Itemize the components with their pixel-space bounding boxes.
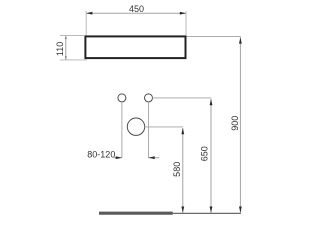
cabinet body rectangle bbox=[85, 36, 185, 58]
svg-text:110: 110 bbox=[55, 42, 65, 56]
dimension 650 dimension line bbox=[210, 99, 212, 213]
wire drop line from left outlet bbox=[121, 102, 123, 158]
floor thin line bbox=[173, 212, 241, 214]
dimension 450 dimension line bbox=[86, 12, 186, 14]
svg-text:450: 450 bbox=[129, 4, 144, 14]
wire drop line from right outlet bbox=[148, 102, 150, 158]
dimension 80-120 left arrow bbox=[116, 156, 122, 159]
dimension 110 bottom extension line bbox=[60, 59, 87, 61]
dimension 80-120 right arrow bbox=[149, 156, 155, 159]
dimension 450 left arrow bbox=[86, 12, 92, 15]
dimension 900 dimension line bbox=[239, 37, 241, 212]
supply outlet circle left bbox=[118, 94, 126, 102]
dimension 110 top arrow bbox=[65, 36, 67, 39]
supply outlet circle right bbox=[145, 94, 153, 102]
dimension 900 top arrow bbox=[239, 37, 242, 43]
dimension 580 dimension line bbox=[182, 128, 184, 213]
dimension 450 left extension line bbox=[85, 11, 87, 35]
dimension 580 top arrow bbox=[181, 128, 184, 134]
dimension 650 bottom arrow bbox=[210, 207, 213, 213]
dimension 450 right arrow bbox=[180, 12, 186, 15]
svg-text:580: 580 bbox=[172, 162, 182, 177]
dimension 110 bottom arrow bbox=[65, 56, 67, 59]
svg-text:650: 650 bbox=[199, 146, 209, 161]
svg-text:900: 900 bbox=[230, 116, 240, 131]
dimension 80-120 left tail line bbox=[114, 157, 122, 159]
dimension 580 bottom arrow bbox=[181, 207, 184, 213]
dimension 80-120 right tail line bbox=[149, 157, 160, 159]
dimension 650 extension line from right outlet bbox=[152, 97, 211, 99]
dimension 900 extension line from cabinet top bbox=[187, 35, 241, 37]
dimension 580 extension line from drain circle bbox=[144, 126, 183, 128]
drain circle large bbox=[127, 118, 144, 135]
dimension 450 right extension line bbox=[185, 11, 187, 35]
dimension 110 top extension line bbox=[60, 34, 85, 36]
dimension 650 top arrow bbox=[210, 99, 213, 105]
dimension 110 dimension line bbox=[65, 35, 67, 60]
svg-text:80-120: 80-120 bbox=[87, 149, 115, 159]
floor thick bar bbox=[99, 212, 173, 215]
dimension 900 bottom arrow bbox=[239, 207, 242, 213]
